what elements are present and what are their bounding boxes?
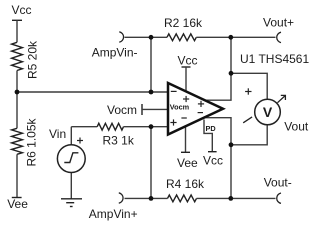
node AmpVin+	[149, 196, 154, 201]
wire in+ node down to AmpVin+ rail	[150, 127, 152, 199]
svg-text:V: V	[263, 104, 273, 120]
sign plus voltmeter	[245, 88, 251, 94]
svg-text:Vout+: Vout+	[263, 16, 294, 30]
voltmeter Vout circle	[255, 99, 281, 125]
wire AmpVin- node down to in- node	[150, 37, 152, 92]
wire R6 to Vee	[16, 154, 18, 197]
wire PD pin	[204, 120, 212, 152]
svg-text:U1 THS4561: U1 THS4561	[240, 52, 309, 66]
svg-text:Vin: Vin	[49, 127, 66, 141]
voltmeter needle arrow	[243, 95, 285, 122]
wire Vin source bottom lead	[70, 173, 72, 199]
svg-text:R4 16k: R4 16k	[166, 177, 205, 191]
svg-text:Vcc: Vcc	[12, 3, 32, 17]
node R2 left / AmpVin-	[149, 35, 154, 40]
node in-	[149, 90, 154, 95]
node Vocm terminal bar	[141, 104, 143, 115]
terminal Vout- arc	[277, 193, 281, 203]
svg-text:Vcc: Vcc	[178, 53, 198, 67]
wire voltmeter bottom lead	[231, 125, 267, 145]
wire Vin source top lead	[70, 127, 72, 145]
wire Vocm to op-amp	[142, 108, 168, 110]
wire node to R6	[16, 92, 18, 128]
resistor R4	[168, 195, 197, 202]
sign plus Vin source	[77, 138, 83, 144]
wire AmpVin+ rail	[125, 197, 168, 199]
node divider mid	[15, 90, 20, 95]
wire R2 to Vout+ terminal	[196, 36, 275, 38]
node R4 right / out-	[228, 196, 233, 201]
svg-text:Vocm: Vocm	[107, 103, 137, 117]
sign plus in+	[170, 122, 176, 124]
wire Vcc to op-amp top	[185, 67, 187, 92]
node voltmeter + branch	[229, 71, 234, 76]
wire R4 to Vout- terminal	[197, 197, 276, 199]
power Vee terminal below op-amp	[181, 151, 190, 153]
power Vcc terminal above op-amp	[182, 66, 191, 68]
svg-text:R6 1.05k: R6 1.05k	[25, 117, 39, 166]
wire divider rail to op-amp in-	[17, 91, 168, 93]
wire out+ branch to voltmeter	[231, 73, 267, 99]
sign plus out+	[198, 103, 204, 105]
svg-text:Vout-: Vout-	[264, 176, 292, 190]
svg-text:Vee: Vee	[7, 197, 28, 211]
wire op-amp Vee pin	[185, 126, 187, 152]
svg-text:AmpVin+: AmpVin+	[89, 207, 138, 221]
terminal AmpVin- arc	[119, 32, 123, 42]
wire top rail AmpVin- to R2	[125, 36, 168, 38]
node in+	[149, 124, 154, 129]
op-amp U1 triangle	[168, 83, 223, 135]
node R2 right / out+	[228, 35, 233, 40]
svg-text:R3 1k: R3 1k	[103, 134, 135, 148]
sign minus in-	[171, 90, 177, 92]
svg-text:AmpVin-: AmpVin-	[92, 46, 138, 60]
svg-text:Vout: Vout	[284, 120, 309, 134]
node voltmeter - branch	[229, 142, 234, 147]
wire Vin to R3	[71, 126, 97, 128]
source VG1 Vin circle	[57, 145, 85, 173]
wire R5 to node	[16, 71, 18, 93]
wire op-amp out-	[205, 118, 231, 199]
terminal Vout+ arc	[277, 32, 281, 42]
resistor R3	[97, 123, 123, 130]
sign minus feedback bottom	[181, 117, 186, 119]
svg-text:PD: PD	[206, 124, 216, 133]
sigmoid waveform glyph	[64, 153, 78, 163]
svg-text:Vocm: Vocm	[170, 103, 190, 112]
resistor R2	[167, 34, 196, 41]
terminal AmpVin+ arc	[119, 193, 123, 203]
wire R3 to in+ node	[124, 126, 169, 128]
wire op-amp out+	[206, 37, 232, 100]
wire Vcc to R5	[16, 20, 18, 42]
power Vee terminal bottom-left	[12, 197, 22, 199]
svg-text:R5 20k: R5 20k	[26, 40, 40, 79]
svg-text:Vee: Vee	[177, 156, 198, 170]
op-amp input/output polarity signs	[170, 91, 204, 125]
resistor R6	[12, 128, 23, 154]
sign minus out-	[198, 112, 203, 114]
power Vcc terminal below PD	[208, 151, 217, 153]
svg-text:R2 16k: R2 16k	[164, 16, 203, 30]
svg-text:Vcc: Vcc	[203, 154, 223, 168]
resistor R5	[12, 42, 23, 70]
power Vcc terminal top-left	[12, 19, 22, 21]
sign plus feedback top	[183, 98, 189, 100]
ground below Vin	[61, 199, 82, 207]
